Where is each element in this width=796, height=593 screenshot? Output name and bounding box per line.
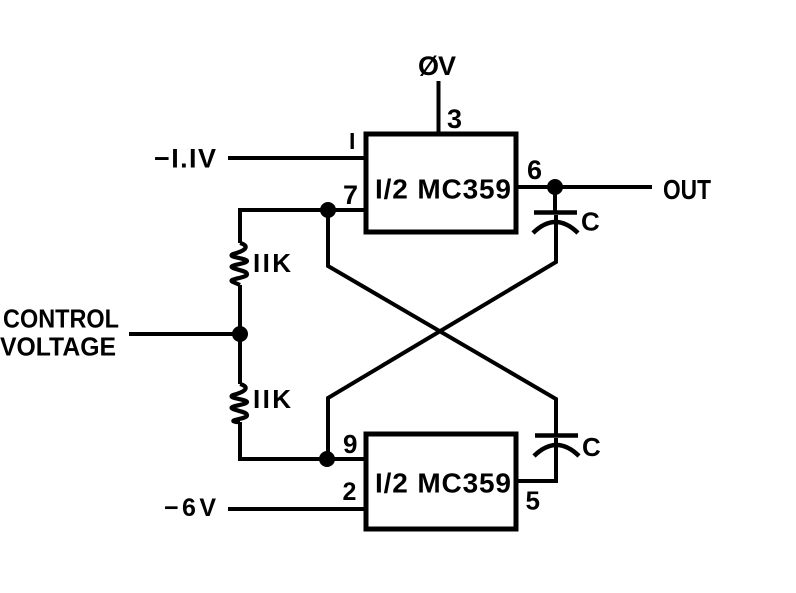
capacitor C2	[534, 436, 579, 457]
wire R2 bottom to pin 9	[240, 422, 364, 459]
wire -1.1V input to pin 1	[228, 156, 366, 160]
svg-text:IIK: IIK	[253, 384, 291, 414]
svg-text:−6V: −6V	[164, 494, 216, 522]
svg-text:5: 5	[526, 486, 540, 516]
wire cross-couple pin9 to C1	[328, 215, 556, 461]
svg-text:OUT: OUT	[663, 174, 711, 205]
svg-text:IIK: IIK	[253, 248, 291, 278]
wire cross-couple pin7 to C2	[328, 208, 556, 434]
capacitor C1 leads	[553, 187, 557, 211]
svg-text:7: 7	[343, 180, 358, 210]
svg-text:3: 3	[447, 104, 462, 134]
capacitor C1	[533, 213, 578, 234]
svg-text:−I.IV: −I.IV	[154, 144, 216, 174]
wire pin 7 horizontal from resistor top	[240, 210, 364, 243]
wire control voltage input	[129, 332, 240, 336]
svg-text:C: C	[582, 432, 601, 462]
svg-text:CONTROL: CONTROL	[3, 304, 119, 334]
svg-text:I/2 MC359: I/2 MC359	[375, 468, 511, 499]
resistor R1	[232, 243, 247, 285]
svg-text:VOLTAGE: VOLTAGE	[0, 332, 116, 362]
wire -6V input to pin 2	[228, 507, 366, 511]
resistor R2	[232, 384, 247, 422]
svg-text:2: 2	[343, 478, 357, 506]
svg-text:I/2 MC359: I/2 MC359	[375, 174, 511, 205]
svg-text:9: 9	[343, 429, 357, 459]
op-amp U1 1/2 MC359	[366, 134, 516, 232]
node pin 7 junction	[320, 202, 336, 218]
node output junction	[547, 179, 563, 195]
wire 0V supply to pin 3	[437, 81, 441, 134]
node pin 9 junction	[319, 451, 335, 467]
node control voltage junction	[232, 326, 248, 342]
wire pin 6 to OUT	[518, 185, 652, 189]
svg-text:6: 6	[527, 155, 542, 185]
op-amp U2 1/2 MC359	[366, 434, 516, 529]
svg-text:C: C	[581, 207, 600, 237]
wire pin 5 to capacitor C2	[517, 438, 556, 481]
svg-text:ØV: ØV	[418, 51, 456, 81]
wire resistor chain node to R2	[238, 285, 242, 384]
svg-text:I: I	[349, 128, 355, 154]
